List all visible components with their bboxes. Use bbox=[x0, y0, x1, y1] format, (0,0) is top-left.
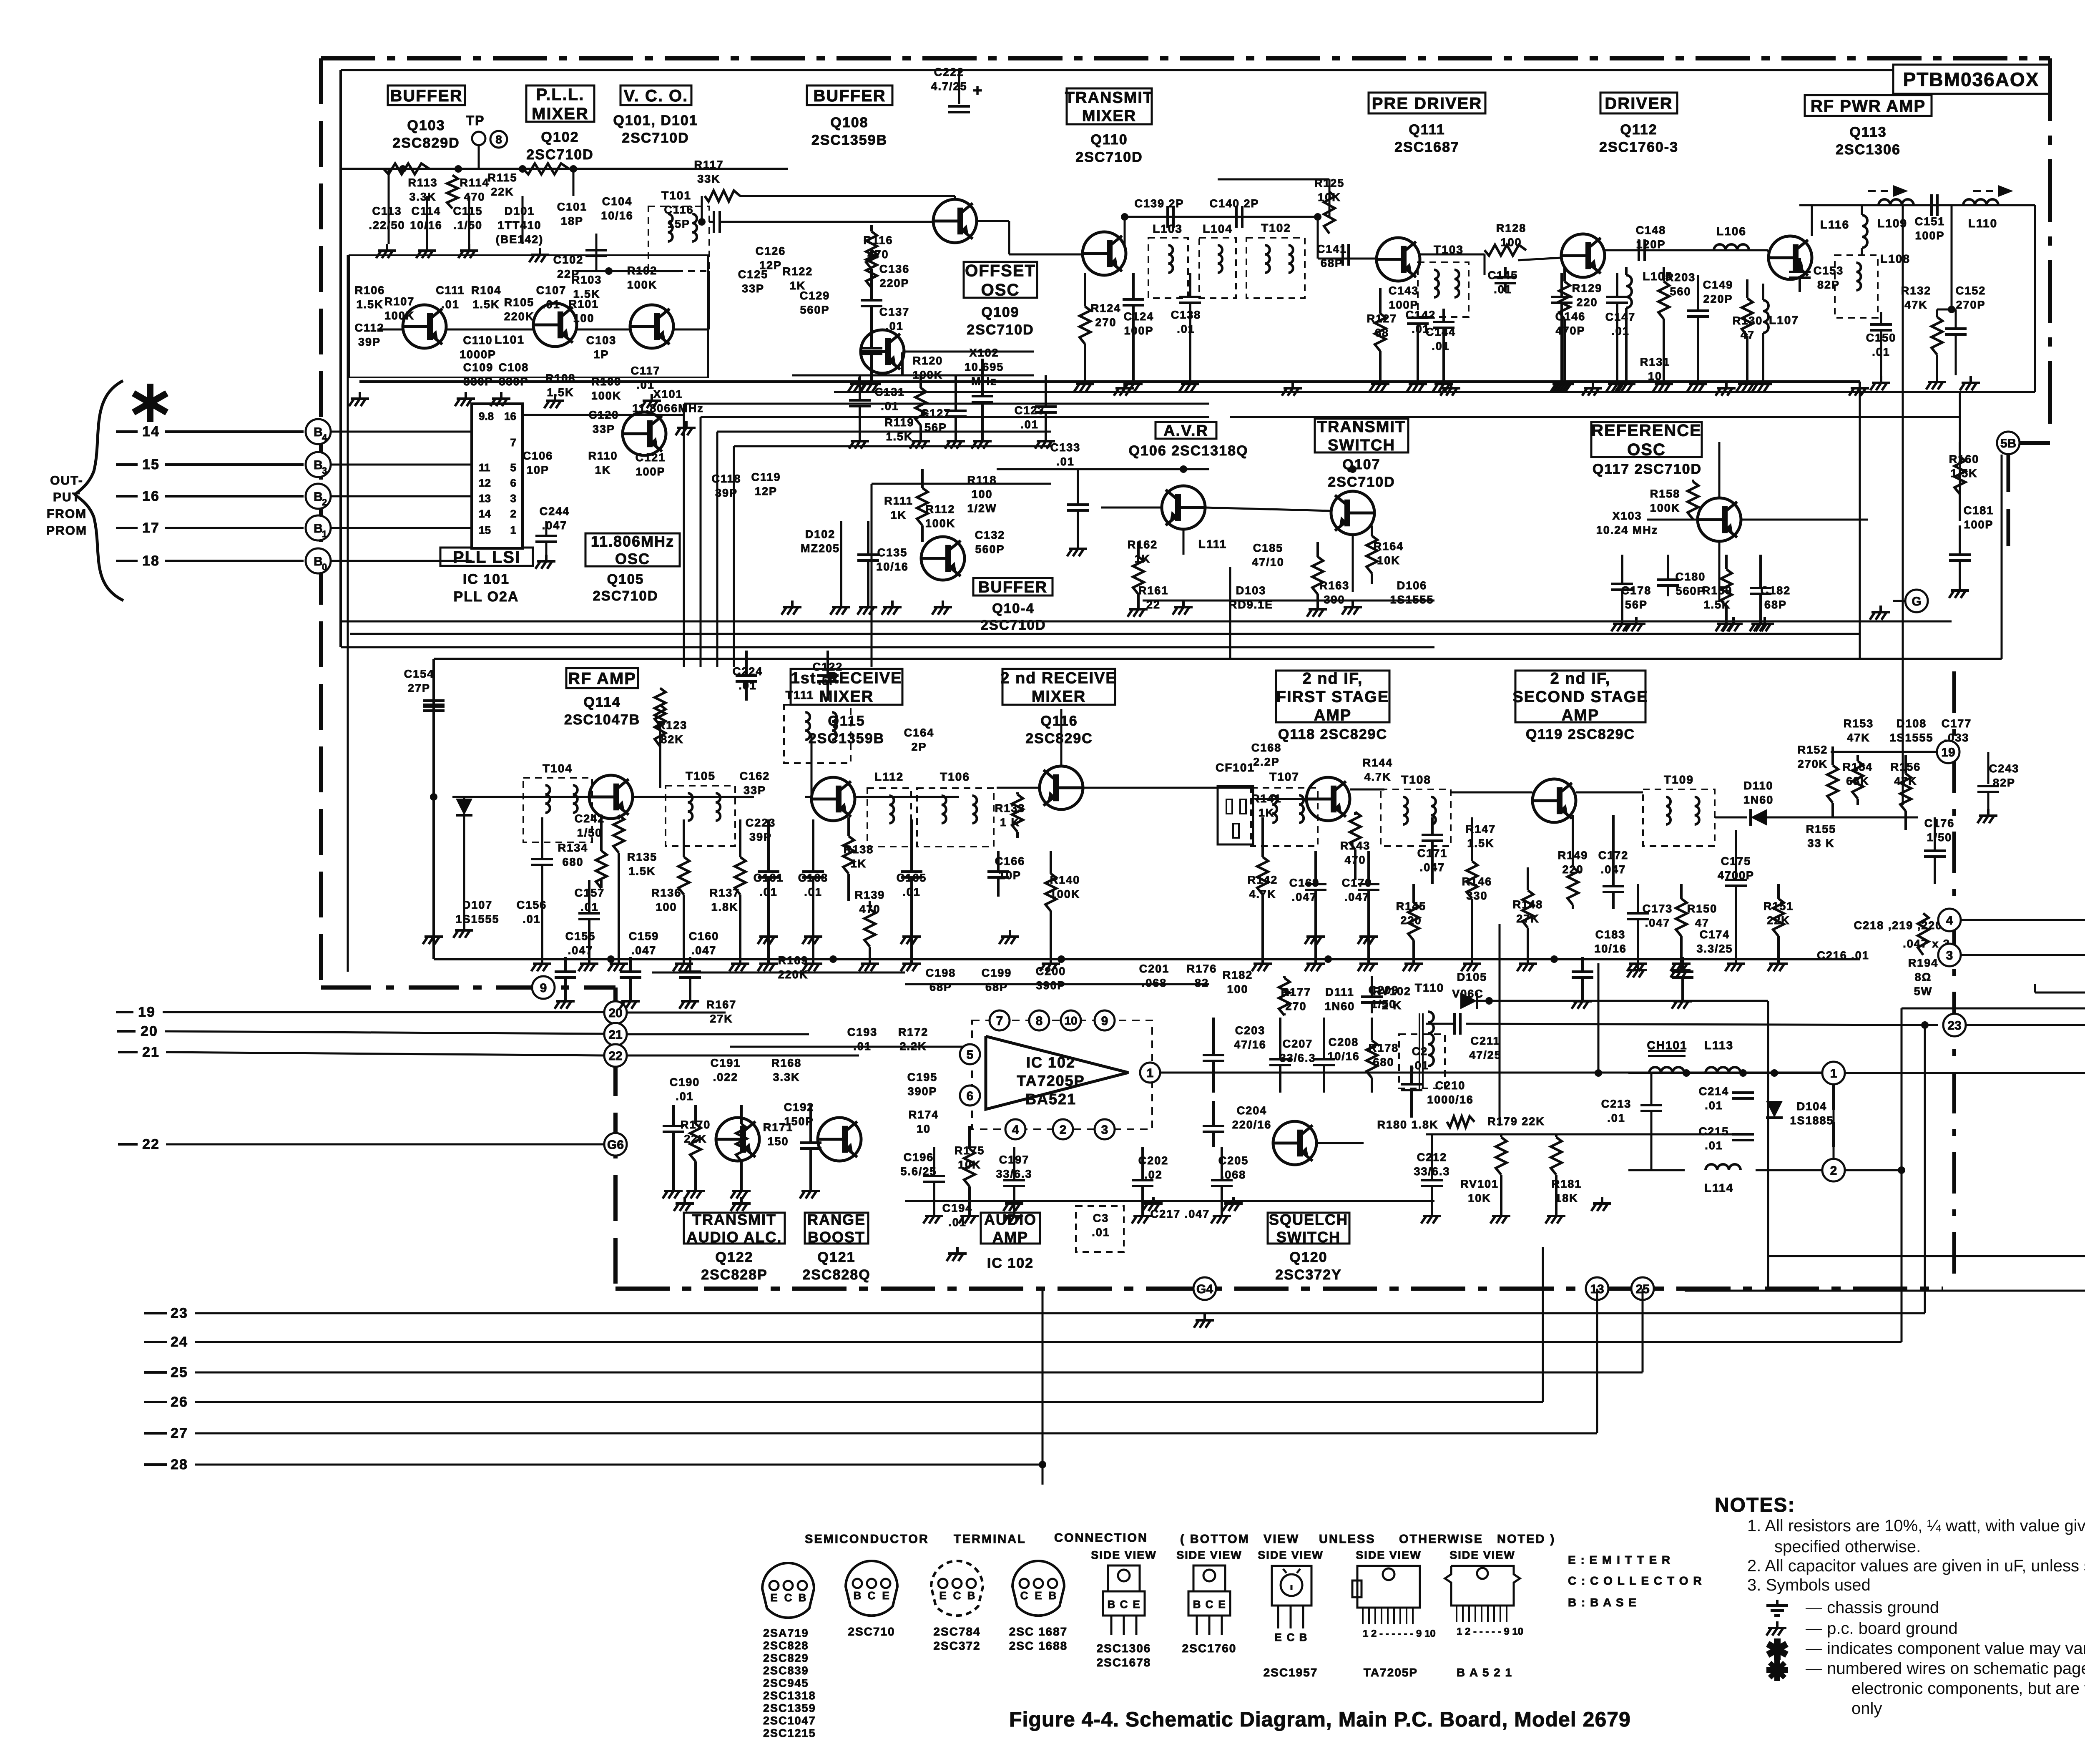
svg-text:R106: R106 bbox=[355, 284, 385, 297]
wire 27 line bbox=[195, 1432, 1597, 1435]
capacitor C139 symbol bbox=[1166, 206, 1169, 228]
wire 23 line bbox=[195, 1312, 1925, 1314]
svg-text:SIDE VIEW: SIDE VIEW bbox=[1258, 1549, 1324, 1561]
svg-text:1P: 1P bbox=[593, 348, 609, 361]
ground symbol 27 bbox=[1880, 376, 1882, 383]
wire supply minus bbox=[1685, 1290, 2085, 1292]
svg-text:2: 2 bbox=[1830, 1164, 1837, 1178]
svg-text:2SC710D: 2SC710D bbox=[526, 147, 593, 163]
capacitor C203 body bbox=[1212, 1018, 1215, 1055]
svg-text:10P: 10P bbox=[527, 464, 549, 476]
ground symbol 20 bbox=[891, 601, 894, 607]
node G4 junction circle bbox=[1193, 1277, 1216, 1300]
svg-text:V. C. O.: V. C. O. bbox=[624, 87, 688, 105]
resistor R203 body bbox=[1663, 267, 1665, 281]
capacitor C142 body bbox=[1417, 313, 1419, 318]
coil L109 top bbox=[1879, 199, 1890, 205]
wire inner top rail bbox=[341, 69, 1893, 71]
svg-text:— indicates component value: — indicates component value may vary fro… bbox=[1806, 1639, 2085, 1658]
resistor R179 symbol bbox=[1447, 1116, 1475, 1127]
ground symbol 6 bbox=[465, 392, 467, 399]
svg-text:C193: C193 bbox=[847, 1026, 878, 1038]
svg-text:4: 4 bbox=[322, 432, 327, 443]
wire q106 emitter down bbox=[1183, 529, 1185, 555]
wire C102 stub bbox=[595, 234, 598, 271]
svg-text:L107: L107 bbox=[1769, 314, 1799, 327]
svg-text:OSC: OSC bbox=[1627, 440, 1666, 459]
svg-text:C194: C194 bbox=[942, 1202, 973, 1214]
svg-text:100: 100 bbox=[1227, 983, 1248, 995]
svg-text:( BOTTOM: ( BOTTOM bbox=[1180, 1533, 1250, 1546]
resistor R111 body bbox=[921, 469, 924, 488]
svg-text:12: 12 bbox=[479, 477, 491, 489]
svg-text:R135: R135 bbox=[627, 851, 658, 863]
svg-text:9: 9 bbox=[1101, 1014, 1108, 1028]
node junction dot 20 bbox=[1550, 955, 1558, 963]
svg-text:R161: R161 bbox=[1138, 584, 1169, 597]
block label 1st RECEIVE MIXER Q115 bbox=[791, 669, 902, 705]
wire outer dash-dot top border bbox=[321, 56, 2050, 60]
svg-text:C3: C3 bbox=[1093, 1212, 1109, 1224]
svg-text:C152: C152 bbox=[1956, 284, 1986, 297]
svg-text:22K: 22K bbox=[684, 1133, 707, 1145]
capacitor C163 body bbox=[812, 819, 814, 872]
wire TP stub bbox=[478, 145, 480, 169]
choke L113 symbol bbox=[1706, 1067, 1717, 1073]
svg-text:R131: R131 bbox=[1640, 356, 1671, 368]
resistor R159 body bbox=[1725, 555, 1728, 569]
svg-text:1S1555: 1S1555 bbox=[1889, 731, 1933, 744]
svg-text:12P: 12P bbox=[755, 485, 777, 498]
svg-text:X103: X103 bbox=[1612, 510, 1642, 522]
svg-text:AMP: AMP bbox=[1562, 707, 1599, 724]
svg-text:L111: L111 bbox=[1198, 538, 1227, 550]
resistor R161 body bbox=[1137, 542, 1140, 557]
svg-text:.01: .01 bbox=[1092, 1226, 1110, 1239]
wire q102-q101 bbox=[577, 329, 630, 331]
svg-text:C177: C177 bbox=[1942, 717, 1972, 730]
resistor R154 body bbox=[1856, 755, 1859, 761]
capacitor C154 body bbox=[432, 667, 435, 705]
svg-text:1.5K: 1.5K bbox=[886, 430, 913, 443]
svg-text:Q103: Q103 bbox=[407, 118, 445, 133]
svg-text:21: 21 bbox=[608, 1028, 622, 1042]
ground symbol 28 bbox=[1969, 376, 1972, 383]
svg-text:.01: .01 bbox=[1705, 1139, 1723, 1152]
svg-text:2SC828P: 2SC828P bbox=[701, 1267, 768, 1283]
svg-text:FROM: FROM bbox=[47, 507, 87, 521]
svg-text:C132: C132 bbox=[975, 529, 1005, 541]
svg-text:D107: D107 bbox=[462, 899, 493, 911]
svg-text:C: C bbox=[1120, 1598, 1128, 1611]
svg-text:C208: C208 bbox=[1329, 1036, 1359, 1048]
svg-text:AMP: AMP bbox=[992, 1229, 1028, 1246]
svg-text:2P: 2P bbox=[911, 741, 927, 753]
svg-text:16: 16 bbox=[142, 488, 160, 504]
ground symbol 39 bbox=[683, 1197, 686, 1204]
ground symbol 32 bbox=[910, 930, 913, 937]
svg-text:9: 9 bbox=[540, 981, 547, 995]
wire squelch out bbox=[1426, 1133, 1743, 1136]
wire C141 to Q111 bbox=[1317, 217, 1319, 259]
capacitor C102 symbol bbox=[585, 249, 607, 251]
svg-text:R128: R128 bbox=[1496, 222, 1527, 234]
ground symbol 7 bbox=[500, 392, 502, 399]
svg-text:T102: T102 bbox=[1261, 221, 1291, 234]
svg-text:1.5K: 1.5K bbox=[628, 865, 656, 877]
resistor R145 body bbox=[1412, 884, 1415, 903]
transformer T101 coil A bbox=[668, 214, 673, 223]
transistor Q101 bbox=[630, 305, 673, 348]
wire rear line ant bbox=[1960, 919, 2085, 921]
svg-text:Q105: Q105 bbox=[607, 571, 644, 587]
ground symbol 31 bbox=[812, 930, 814, 937]
block label TRANSMIT SWITCH Q107 bbox=[1315, 419, 1408, 452]
svg-text:C207: C207 bbox=[1283, 1038, 1313, 1050]
svg-text:D104: D104 bbox=[1797, 1100, 1827, 1113]
svg-text:2: 2 bbox=[322, 497, 327, 508]
resistor R125 symbol bbox=[1324, 192, 1335, 234]
wire 5B jog bbox=[2012, 441, 2050, 445]
svg-text:100K: 100K bbox=[627, 279, 658, 291]
node junction dot 10 bbox=[1739, 1069, 1747, 1077]
svg-text:.01: .01 bbox=[1607, 1112, 1625, 1124]
svg-text:390P: 390P bbox=[1036, 979, 1065, 992]
svg-text:1/50: 1/50 bbox=[577, 827, 603, 839]
wire rear line ant2 bbox=[1960, 954, 2085, 956]
svg-text:39P: 39P bbox=[715, 487, 738, 499]
block label VCO Q101 bbox=[620, 85, 691, 105]
svg-text:Figure 4-4. Schematic Diagram,: Figure 4-4. Schematic Diagram, Main P.C.… bbox=[1009, 1708, 1631, 1731]
svg-text:2SC1957: 2SC1957 bbox=[1264, 1666, 1318, 1679]
wire R160 vert bbox=[1959, 442, 1961, 517]
IC102 pin 1 circle bbox=[1140, 1063, 1160, 1083]
capacitor C205 body bbox=[1221, 1147, 1223, 1180]
wire CF101-Q118 bbox=[1255, 798, 1306, 800]
svg-text:C155: C155 bbox=[565, 930, 596, 942]
wire transmit bottom rail full bbox=[359, 380, 1860, 383]
ground symbol 34 bbox=[1314, 930, 1317, 937]
node 9 junction circle bbox=[532, 976, 555, 999]
svg-text:E : E M I T T E R: E : E M I T T E R bbox=[1568, 1553, 1671, 1566]
wire T103 to Q112 bbox=[1518, 258, 1561, 260]
svg-text:CF101: CF101 bbox=[1216, 761, 1255, 774]
wire spk jack line2 bbox=[1845, 1169, 1902, 1171]
wire bus h5 bbox=[734, 445, 1051, 447]
ground symbol 33 bbox=[1009, 930, 1011, 937]
svg-text:C136: C136 bbox=[879, 263, 910, 275]
svg-text:10: 10 bbox=[917, 1123, 931, 1135]
svg-text:PTBM036AOX: PTBM036AOX bbox=[1903, 69, 2040, 90]
transformer T108 coil A bbox=[1403, 797, 1408, 806]
svg-text:.01: .01 bbox=[1020, 418, 1039, 431]
svg-text:C153: C153 bbox=[1814, 264, 1844, 277]
svg-text:.068: .068 bbox=[1142, 977, 1167, 989]
node 8 circle bbox=[490, 131, 507, 148]
wire fuse feed bbox=[1768, 1255, 2085, 1257]
svg-text:18: 18 bbox=[142, 553, 160, 569]
resistor R123 symbol bbox=[655, 705, 666, 746]
wire C116 to Q108 bbox=[720, 221, 933, 223]
wire vco to T101 bbox=[708, 271, 710, 329]
wire outer dash-dot left border bbox=[319, 58, 323, 988]
svg-text:C118: C118 bbox=[711, 472, 741, 485]
wire pll feedback bus2 bbox=[701, 416, 1209, 418]
wire mid bus d bbox=[350, 633, 1860, 635]
svg-text:4.7/25: 4.7/25 bbox=[931, 80, 967, 93]
wire 26 line bbox=[195, 1401, 1543, 1403]
svg-text:100P: 100P bbox=[1124, 324, 1153, 337]
svg-text:R122: R122 bbox=[783, 265, 813, 278]
svg-text:19: 19 bbox=[1941, 746, 1955, 759]
svg-text:TA7205P: TA7205P bbox=[1364, 1666, 1418, 1679]
IC102 pin 2 circle bbox=[1053, 1119, 1073, 1139]
svg-text:L104: L104 bbox=[1203, 222, 1233, 235]
svg-text:MIXER: MIXER bbox=[1032, 688, 1086, 706]
svg-text:SWITCH: SWITCH bbox=[1328, 437, 1395, 454]
note star4 symbol bbox=[1774, 1659, 1780, 1681]
svg-text:10: 10 bbox=[1064, 1014, 1077, 1027]
wire power to rear1 bbox=[1833, 1084, 1835, 1159]
svg-text:1.5K: 1.5K bbox=[547, 386, 574, 399]
svg-text:R167: R167 bbox=[706, 998, 737, 1011]
svg-text:C117: C117 bbox=[631, 364, 660, 377]
IC102 pin 6 circle bbox=[960, 1086, 980, 1106]
svg-text:C145: C145 bbox=[1488, 269, 1518, 281]
diode D110 symbol bbox=[1751, 809, 1767, 826]
resistor R139 body bbox=[869, 901, 871, 909]
svg-text:RV101: RV101 bbox=[1460, 1178, 1499, 1190]
wire audio out bbox=[1155, 1072, 1822, 1074]
resistor R130 body bbox=[1746, 279, 1748, 298]
ground symbol 8 bbox=[554, 394, 556, 401]
svg-text:OSC: OSC bbox=[981, 281, 1020, 299]
capacitor C204 body bbox=[1212, 1101, 1215, 1126]
svg-text:220K: 220K bbox=[504, 310, 535, 323]
svg-text:C201: C201 bbox=[1139, 962, 1170, 975]
ground symbol 17 bbox=[1859, 382, 1861, 388]
transformer T108 coil B bbox=[1431, 797, 1436, 806]
wire 19 line bbox=[163, 1011, 604, 1013]
svg-text:C176: C176 bbox=[1924, 817, 1955, 829]
svg-text:4: 4 bbox=[1946, 914, 1953, 927]
svg-text:R179 22K: R179 22K bbox=[1487, 1115, 1545, 1128]
svg-text:T109: T109 bbox=[1664, 773, 1694, 786]
wire top block bottom rail bbox=[359, 381, 742, 383]
wire vert 3833 bbox=[1598, 963, 1600, 1073]
resistor R119 body bbox=[919, 375, 922, 388]
svg-text:.047: .047 bbox=[691, 944, 717, 957]
capacitor C208 body bbox=[1323, 1018, 1325, 1059]
svg-text:Q114: Q114 bbox=[583, 694, 620, 710]
svg-text:R113: R113 bbox=[408, 176, 437, 189]
svg-text:C147: C147 bbox=[1605, 311, 1636, 323]
ground symbol 14 bbox=[1450, 382, 1452, 388]
wire mid bus c bbox=[341, 621, 1952, 623]
svg-text:L109: L109 bbox=[1877, 217, 1907, 230]
svg-text:Q10-4: Q10-4 bbox=[992, 601, 1035, 616]
svg-text:19: 19 bbox=[138, 1004, 156, 1020]
svg-text:T103: T103 bbox=[1434, 243, 1464, 256]
svg-text:G6: G6 bbox=[607, 1138, 624, 1152]
svg-text:Q121: Q121 bbox=[817, 1249, 855, 1265]
svg-text:B: B bbox=[314, 490, 323, 504]
svg-text:.01: .01 bbox=[542, 298, 560, 311]
transistor Q106 bbox=[1162, 486, 1205, 529]
capacitor C151 symbol bbox=[1930, 194, 1933, 216]
brace OUTPUT FROM PROM bbox=[75, 381, 123, 601]
capacitor C140 symbol bbox=[1235, 206, 1238, 228]
resistor R178 body bbox=[1371, 1018, 1373, 1040]
svg-text:270P: 270P bbox=[1956, 299, 1985, 311]
svg-text:B: B bbox=[314, 458, 323, 472]
svg-text:100K: 100K bbox=[925, 517, 956, 530]
ground symbol 16 bbox=[1725, 382, 1728, 388]
resistor RV101 body bbox=[1500, 1134, 1502, 1137]
capacitor C155 body bbox=[564, 957, 567, 972]
svg-text:L112: L112 bbox=[874, 770, 904, 783]
block label REFERENCE OSC Q117 bbox=[1591, 422, 1702, 457]
svg-text:C210: C210 bbox=[1435, 1079, 1466, 1092]
svg-text:L110: L110 bbox=[1968, 217, 1997, 230]
svg-text:10.24 MHz: 10.24 MHz bbox=[1596, 524, 1658, 536]
svg-text:11: 11 bbox=[479, 461, 490, 474]
svg-text:AUDIO ALC.: AUDIO ALC. bbox=[687, 1229, 782, 1246]
transistor Q109 bbox=[861, 330, 904, 373]
transformer T111 coil B bbox=[832, 712, 837, 721]
svg-text:SIDE VIEW: SIDE VIEW bbox=[1091, 1549, 1157, 1561]
transformer T105 coil B bbox=[716, 793, 720, 802]
ground symbol 25 bbox=[1732, 617, 1735, 624]
capacitor C135 body bbox=[867, 521, 869, 555]
svg-text:14: 14 bbox=[479, 508, 491, 520]
transformer T106 coil B bbox=[972, 796, 977, 805]
capacitor C215 symbol bbox=[1732, 1133, 1754, 1136]
svg-text:2SC1318: 2SC1318 bbox=[763, 1689, 816, 1702]
svg-text:2SC710D: 2SC710D bbox=[967, 322, 1034, 338]
svg-text:.047: .047 bbox=[1344, 891, 1370, 903]
board code PTBM036AOX box bbox=[1893, 65, 2049, 94]
svg-text:C: C bbox=[1206, 1598, 1213, 1611]
capacitor C141 symbol bbox=[1341, 244, 1344, 266]
svg-text:470P: 470P bbox=[1555, 324, 1585, 337]
IC102 pin 7 circle bbox=[990, 1010, 1010, 1030]
IC101 PLL LSI body bbox=[472, 404, 523, 548]
svg-text:L114: L114 bbox=[1704, 1181, 1733, 1194]
svg-text:E: E bbox=[882, 1589, 889, 1602]
svg-text:1.8K: 1.8K bbox=[711, 901, 738, 913]
svg-text:Q112: Q112 bbox=[1620, 122, 1657, 138]
svg-text:47K: 47K bbox=[1904, 299, 1928, 311]
ground C244 bbox=[545, 555, 548, 561]
svg-text:2SC1047: 2SC1047 bbox=[763, 1714, 816, 1727]
wire avr to switch bbox=[1205, 508, 1331, 511]
resistor R117 symbol bbox=[705, 191, 740, 201]
svg-text:E: E bbox=[770, 1591, 777, 1604]
capacitor C213 symbol bbox=[1650, 1073, 1653, 1105]
capacitor C212 body bbox=[1431, 1134, 1433, 1180]
wire L105 rail bbox=[1668, 249, 1768, 251]
svg-text:C140 2P: C140 2P bbox=[1209, 197, 1259, 210]
svg-text:68P: 68P bbox=[929, 981, 952, 993]
svg-text:2SC710D: 2SC710D bbox=[593, 588, 658, 603]
node junction dot 1 bbox=[399, 165, 407, 173]
capacitor C116 symbol bbox=[713, 211, 715, 233]
svg-text:23: 23 bbox=[171, 1305, 188, 1321]
wire 22 line bbox=[166, 1143, 604, 1146]
wire R125 top bbox=[1218, 178, 1329, 181]
wire Q110 collector up bbox=[1124, 217, 1126, 246]
wire transistor row rail bbox=[377, 329, 403, 331]
transformer T107 coil B bbox=[1299, 795, 1304, 804]
svg-text:C131: C131 bbox=[875, 386, 905, 398]
svg-text:C121: C121 bbox=[636, 451, 666, 464]
svg-text:L113: L113 bbox=[1704, 1039, 1733, 1052]
ground symbol 11 bbox=[685, 421, 688, 428]
svg-text:22: 22 bbox=[608, 1049, 622, 1063]
svg-text:AMP: AMP bbox=[1314, 707, 1351, 724]
svg-text:C183: C183 bbox=[1595, 928, 1626, 941]
svg-text:R158: R158 bbox=[1650, 487, 1681, 500]
wire buffer out to mixer bbox=[1008, 221, 1010, 254]
wire L109 chain bbox=[1799, 204, 2035, 206]
wire refosc down bbox=[1718, 542, 1721, 601]
node junction dot 16 bbox=[607, 955, 615, 963]
svg-text:22: 22 bbox=[142, 1136, 160, 1152]
svg-text:1K: 1K bbox=[595, 464, 611, 476]
svg-text:R172: R172 bbox=[898, 1026, 929, 1038]
transformer T102 bbox=[1246, 238, 1305, 298]
svg-text:R177: R177 bbox=[1281, 986, 1311, 998]
IC102 pin 4 circle bbox=[1005, 1119, 1025, 1139]
svg-text:2 K: 2 K bbox=[1382, 999, 1402, 1012]
svg-text:L106: L106 bbox=[1716, 225, 1746, 238]
svg-text:68P: 68P bbox=[1764, 598, 1787, 611]
svg-text:C125: C125 bbox=[738, 268, 769, 281]
svg-text:Q111: Q111 bbox=[1409, 122, 1445, 138]
svg-text:3: 3 bbox=[510, 492, 516, 505]
svg-text:TRANSMIT: TRANSMIT bbox=[692, 1211, 776, 1228]
wire refosc rail bbox=[1647, 519, 1698, 521]
wire ic in rail bbox=[730, 1046, 972, 1048]
svg-text:2SC829: 2SC829 bbox=[763, 1652, 809, 1664]
svg-text:2SC1359B: 2SC1359B bbox=[809, 731, 884, 746]
svg-text:Q102: Q102 bbox=[541, 129, 579, 145]
svg-text:R119: R119 bbox=[884, 416, 914, 429]
svg-text:R203: R203 bbox=[1665, 271, 1696, 284]
svg-text:C160: C160 bbox=[689, 930, 719, 942]
capacitor C3 box bbox=[1076, 1206, 1124, 1252]
block label BUFFER Q108 bbox=[807, 85, 892, 105]
wire q107 emitter down bbox=[1352, 535, 1354, 592]
svg-text:100P: 100P bbox=[1915, 229, 1944, 242]
svg-text:C190: C190 bbox=[670, 1076, 700, 1088]
svg-text:.22/50: .22/50 bbox=[369, 219, 405, 231]
svg-text:B: B bbox=[967, 1589, 975, 1602]
ground symbol 36 bbox=[1637, 963, 1639, 970]
wire heavy dash bottom run y3090 bbox=[615, 1287, 1943, 1291]
transistor Q114 bbox=[589, 775, 633, 819]
svg-text:.1/50: .1/50 bbox=[453, 219, 482, 231]
svg-text:2SC 1688: 2SC 1688 bbox=[1009, 1639, 1068, 1652]
wire vert 4800 bbox=[2001, 455, 2003, 659]
wire staircase v4 bbox=[733, 446, 735, 667]
wire squelch rail bbox=[1316, 1142, 1364, 1144]
svg-text:.047: .047 bbox=[1292, 891, 1317, 903]
svg-text:1000P: 1000P bbox=[460, 348, 496, 361]
svg-text:56P: 56P bbox=[1625, 598, 1648, 611]
svg-text:6: 6 bbox=[510, 477, 516, 489]
